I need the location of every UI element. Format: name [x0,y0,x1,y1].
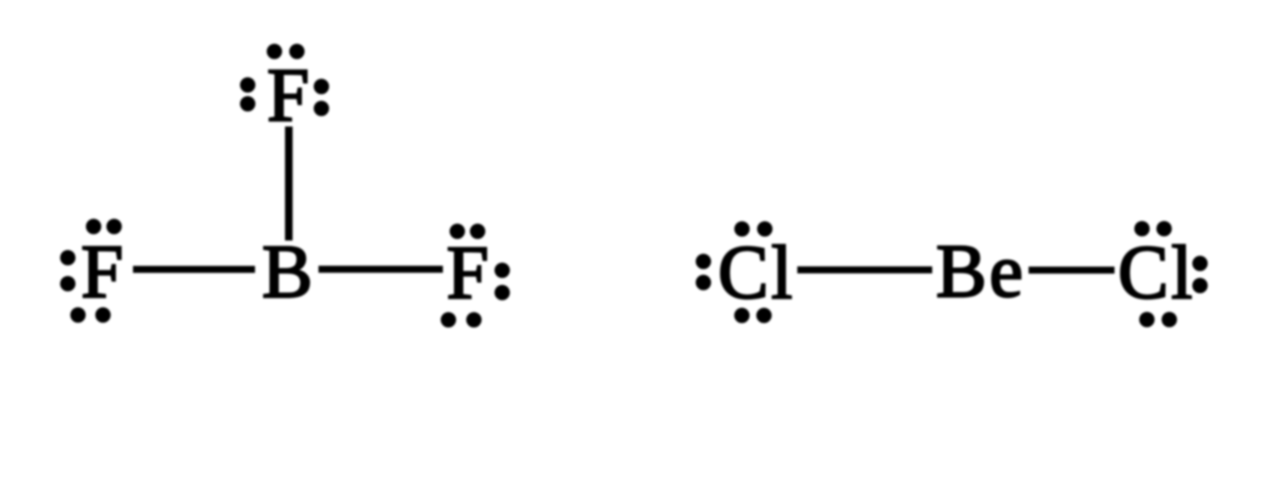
svg-text:B: B [262,230,313,314]
lone pair F3 right [495,263,510,278]
lone pair F1 right [314,79,329,94]
lone pair Cl1 bottom [734,308,749,323]
bond Be-Cl2 (horizontal) [1029,267,1115,274]
svg-text:F: F [81,230,123,314]
bond B-F1 (vertical) [285,127,293,241]
lone pair Cl2 bottom [1139,312,1154,327]
svg-text:F: F [267,54,309,138]
lone pair Cl1 top [734,221,749,236]
lone pair F3 top [450,224,465,239]
lone pair F2 left [60,250,75,265]
lone pair Cl2 right [1192,256,1207,271]
lone pair F2 bottom [70,307,85,322]
lone pair F1 left [240,77,255,92]
svg-text:Be: Be [936,230,1025,314]
svg-text:Cl: Cl [718,231,795,315]
bond F2-B (horizontal) [133,266,255,273]
svg-text:Cl: Cl [1118,231,1195,315]
svg-text:F: F [447,231,489,315]
lone pair Cl2 top [1134,221,1149,236]
bond B-F3 (horizontal) [319,266,443,273]
bond Cl1-Be (horizontal) [797,266,932,273]
lone pair F3 bottom [441,312,456,327]
lone pair Cl1 left [696,254,711,269]
lone pair F1 top [267,44,282,59]
lone pair F2 top [86,219,101,234]
